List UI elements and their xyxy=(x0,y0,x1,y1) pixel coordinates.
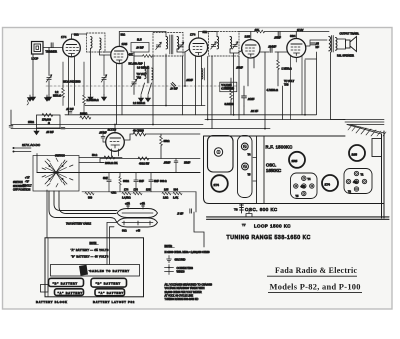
grid resistor 2.2MEG V2 xyxy=(83,95,86,105)
vertical drop x153 xyxy=(152,56,154,125)
svg-text:.01MF: .01MF xyxy=(186,79,193,82)
IF can square (top view) xyxy=(208,136,234,173)
cables row box xyxy=(51,265,140,277)
battery cable curves xyxy=(54,191,117,211)
svg-text:CABLES TO BATTERY: CABLES TO BATTERY xyxy=(90,269,130,273)
screen cap xyxy=(278,32,280,37)
variable capacitor C2 osc gang xyxy=(103,55,105,95)
svg-text:OUTPUT TRANS.: OUTPUT TRANS. xyxy=(340,33,360,36)
wire to output transformer xyxy=(306,40,328,46)
resistor 2000 1W xyxy=(104,156,115,159)
wire IFT2 to V4 xyxy=(230,49,243,53)
junction dots on rails xyxy=(152,124,154,126)
bus rail D xyxy=(11,124,203,126)
svg-text:.04 MF: .04 MF xyxy=(136,47,144,50)
svg-text:50 Ω: 50 Ω xyxy=(92,154,97,157)
svg-text:78.5 BATTERY CABLE: 78.5 BATTERY CABLE xyxy=(66,223,91,226)
cable connector blob xyxy=(79,265,88,276)
trimmer T7 mark xyxy=(246,211,252,217)
coupling cap .004MF xyxy=(270,48,272,53)
cap 8MF b xyxy=(149,180,153,182)
socket pins T1 xyxy=(354,171,358,175)
variable capacitor C1 xyxy=(46,75,52,82)
tube V1 1T4 RF amp xyxy=(63,39,81,115)
resistor 600 vertical xyxy=(119,177,121,185)
wire 3S4 filament right xyxy=(305,58,317,60)
cap .04MF mid xyxy=(171,82,176,87)
svg-text:.02 MF: .02 MF xyxy=(251,110,259,113)
IF can adjuster xyxy=(214,148,222,156)
svg-text:1R5: 1R5 xyxy=(122,42,128,46)
svg-text:1R5: 1R5 xyxy=(292,159,298,163)
svg-text:“B” BATTERY: “B” BATTERY xyxy=(53,281,78,285)
svg-text:BATTERY BLOCK: BATTERY BLOCK xyxy=(36,300,68,304)
svg-text:8MF: 8MF xyxy=(154,180,159,183)
svg-text:1T4: 1T4 xyxy=(190,33,196,37)
svg-text:45Ω: 45Ω xyxy=(353,181,358,184)
battery layout outer box xyxy=(45,238,144,297)
svg-text:1R5: 1R5 xyxy=(146,189,151,192)
cap .05 on filter xyxy=(174,161,178,162)
chassis front bar xyxy=(207,217,390,219)
chassis corner brace hatched xyxy=(343,120,386,137)
svg-text:4½VOLT: 4½VOLT xyxy=(22,184,32,188)
wire switch left down xyxy=(36,154,38,173)
svg-text:-“B”: -“B” xyxy=(25,181,29,184)
battery plug P1 xyxy=(117,209,158,218)
svg-text:3S4: 3S4 xyxy=(174,189,179,192)
RF coil secondary xyxy=(100,38,102,50)
vertical drop x233 xyxy=(233,53,235,115)
filament resistor b xyxy=(122,192,131,195)
volume control box xyxy=(220,82,237,92)
svg-text:+1½: +1½ xyxy=(125,202,130,206)
junction dot xyxy=(184,85,186,87)
wire coil to V2 grid xyxy=(100,51,112,56)
svg-text:.05MF: .05MF xyxy=(236,66,243,69)
svg-text:R.F. 1500KC: R.F. 1500KC xyxy=(266,144,293,149)
svg-text:900 Ω: 900 Ω xyxy=(160,180,167,183)
svg-text:“A” BATTERY: “A” BATTERY xyxy=(99,291,124,295)
wire osc coil down xyxy=(134,52,152,95)
svg-text:.05 MF: .05 MF xyxy=(46,131,54,134)
osc padder variable cap xyxy=(131,79,137,86)
svg-text:“A” BATTERY: “A” BATTERY xyxy=(58,291,83,295)
vertical drop x185 xyxy=(184,52,186,86)
filter rail xyxy=(100,158,200,160)
resistor 270,000 xyxy=(42,113,53,116)
svg-text:1650KC: 1650KC xyxy=(266,168,281,173)
svg-text:270,000: 270,000 xyxy=(42,119,51,122)
svg-text:90Ω: 90Ω xyxy=(122,230,127,233)
on-off switch S1 rotary xyxy=(33,156,79,192)
plate wire V3 to IFT2 xyxy=(198,32,217,39)
svg-text:2.2 MEG.Ω: 2.2 MEG.Ω xyxy=(87,99,99,102)
svg-text:47K: 47K xyxy=(129,54,134,57)
wire speaker to transformer xyxy=(337,39,346,49)
vertical drop x317 xyxy=(316,52,318,115)
filament resistor d xyxy=(162,192,171,195)
resistor 47K in rail xyxy=(255,30,265,33)
svg-text:GROUND: GROUND xyxy=(175,259,186,262)
squiggle mark xyxy=(27,100,29,106)
RF coil primary xyxy=(91,37,93,49)
tube V4 1S5 det-af xyxy=(242,40,260,86)
svg-text:.04 MF: .04 MF xyxy=(170,88,178,91)
resistor 400 5W xyxy=(138,157,149,160)
arrow to cables xyxy=(89,270,91,272)
bus rail E xyxy=(11,128,270,130)
svg-text:4.7MEG.Ω: 4.7MEG.Ω xyxy=(267,89,279,92)
grid wire V2 left xyxy=(103,51,111,53)
svg-text:40 OHMS: 40 OHMS xyxy=(133,130,144,133)
B+ top rail xyxy=(239,31,329,33)
wire A to battery box xyxy=(46,190,48,238)
svg-text:“B” BATTERY — 45 VOLTS: “B” BATTERY — 45 VOLTS xyxy=(71,255,109,258)
svg-text:2000.Ω 1W.: 2000.Ω 1W. xyxy=(105,162,118,165)
svg-text:67.5V: 67.5V xyxy=(297,29,304,32)
tube socket 1S5 (layout) xyxy=(349,145,365,161)
svg-text:P.M. SPEAKER: P.M. SPEAKER xyxy=(337,55,354,58)
wire IFT1 to V3 grid xyxy=(177,49,190,52)
IF can coil small xyxy=(202,68,205,80)
svg-text:3S4: 3S4 xyxy=(290,34,296,38)
bus rail A xyxy=(85,105,205,107)
svg-text:TAB: TAB xyxy=(137,77,142,80)
grounds above rail D xyxy=(27,95,32,101)
tube socket 1R5 (layout) xyxy=(289,152,305,168)
svg-text:.01MF: .01MF xyxy=(248,98,255,101)
svg-text:MF: MF xyxy=(316,46,320,49)
svg-text:TUNING RANGE 538-1650 KC: TUNING RANGE 538-1650 KC xyxy=(227,235,311,241)
svg-text:400Ω 5W: 400Ω 5W xyxy=(139,163,150,166)
svg-text:T7: T7 xyxy=(242,223,246,227)
B battery cell left xyxy=(49,278,84,286)
svg-text:1S5: 1S5 xyxy=(352,152,358,156)
wire plug to box xyxy=(107,223,110,265)
bus rail B xyxy=(65,114,316,116)
svg-text:LOOP: LOOP xyxy=(32,58,39,61)
tube socket 1T4 (layout) xyxy=(211,175,228,192)
svg-text:1.4V.: 1.4V. xyxy=(173,197,179,200)
svg-text:NO.250 AMP: NO.250 AMP xyxy=(129,63,144,66)
legend ground symbol xyxy=(167,256,172,263)
ground xyxy=(88,95,93,101)
notch rectangle on right edge xyxy=(372,139,382,157)
svg-text:2.2 MEG.Ω: 2.2 MEG.Ω xyxy=(133,102,145,105)
cap .05 upper xyxy=(68,112,72,113)
socket pins xyxy=(302,176,306,180)
small plug rect at left edge xyxy=(41,285,49,293)
resistor box 270,000 ohm xyxy=(37,115,61,128)
chassis right edge double line xyxy=(382,131,385,218)
svg-text:+“A”: +“A” xyxy=(25,177,30,180)
vertical drop x330 xyxy=(331,52,346,120)
vertical drop x166 xyxy=(165,54,167,106)
tube V3 1T4 IF amp xyxy=(189,38,207,115)
plate wire V5 up xyxy=(295,32,297,39)
svg-text:TRIMMER: TRIMMER xyxy=(46,51,58,54)
filament resistor c xyxy=(133,192,142,195)
wire V2 plate to IFT1 xyxy=(128,32,166,37)
vertical drop x244 xyxy=(243,106,245,115)
svg-text:300: 300 xyxy=(88,197,93,200)
plate wire V1 to RF coil xyxy=(72,34,87,39)
svg-text:VOLTAGE READINGS TAKEN WITH: VOLTAGE READINGS TAKEN WITH xyxy=(165,287,205,290)
wire left filter xyxy=(100,159,104,163)
svg-text:MICA PADDING: MICA PADDING xyxy=(63,81,81,84)
resistor volume vertical xyxy=(230,90,233,100)
svg-text:OSC. 600 KC: OSC. 600 KC xyxy=(245,207,278,212)
tube V5 3S4 output xyxy=(287,39,306,120)
tube socket 1T4 right (layout) xyxy=(322,175,338,191)
tuning cap C1 branch xyxy=(48,48,50,95)
output transformer T3 xyxy=(329,36,337,53)
IF transformer T2 dashed can xyxy=(209,32,240,57)
svg-text:TAB: TAB xyxy=(284,84,289,87)
vertical drop x207 xyxy=(207,57,209,120)
svg-text:1T4: 1T4 xyxy=(214,183,220,187)
svg-text:1S5: 1S5 xyxy=(245,35,251,39)
svg-text:OSC.: OSC. xyxy=(266,163,276,168)
IF transformer T1 dashed can xyxy=(153,33,183,57)
left edge cap C-line xyxy=(9,126,13,127)
B battery cell right xyxy=(91,278,127,287)
svg-text:.5 MF: .5 MF xyxy=(177,213,184,216)
choke 1000 xyxy=(80,116,91,119)
svg-text:25MF: 25MF xyxy=(184,162,191,165)
svg-text:600Ω: 600Ω xyxy=(123,180,129,183)
output socket square T1 T2 xyxy=(344,169,372,194)
plate wire V4 up to B+ rail xyxy=(250,32,252,40)
inner left edge line xyxy=(47,238,49,297)
vertical drop x265 xyxy=(264,52,266,129)
svg-text:AT VOLT. 60 CYCLE LINE: AT VOLT. 60 CYCLE LINE xyxy=(165,294,194,297)
svg-text:ALL VOLTAGES MEASURED TO CHASS: ALL VOLTAGES MEASURED TO CHASSIS xyxy=(165,284,213,287)
A battery cell left xyxy=(55,289,84,296)
svg-text:3.9 MEG.Ω: 3.9 MEG.Ω xyxy=(137,67,149,70)
power plug wires xyxy=(13,148,31,152)
svg-text:MEG.Ω: MEG.Ω xyxy=(53,95,61,98)
svg-text:+45: +45 xyxy=(136,230,141,233)
svg-text:1S5: 1S5 xyxy=(164,189,169,192)
plate wire 117Z3 xyxy=(114,125,116,133)
plug 2 marks xyxy=(124,221,150,225)
svg-text:OFF POSITION: OFF POSITION xyxy=(13,189,30,192)
speaker SP1 xyxy=(346,37,357,52)
svg-text:4.5Ω: 4.5Ω xyxy=(111,192,116,195)
svg-text:8MF: 8MF xyxy=(103,177,108,180)
filament string wire xyxy=(82,191,196,193)
vertical drop x282 xyxy=(282,86,284,120)
bus rail C xyxy=(205,119,345,121)
B minus rail thick xyxy=(37,172,200,174)
trimmer T5 xyxy=(242,163,249,170)
svg-text:K=1000 OHMS. MEG.= 1,000,00: K=1000 OHMS. MEG.= 1,000,000 OHMS xyxy=(165,251,210,254)
wire V4 to output grid xyxy=(260,51,288,53)
tube V6 117Z3 rectifier xyxy=(106,133,125,156)
svg-text:1T4: 1T4 xyxy=(325,182,331,186)
cap .05 xyxy=(61,128,65,129)
trimmer T4 xyxy=(241,143,248,150)
svg-text:WIRES: WIRES xyxy=(177,271,185,274)
svg-text:CONNECTING: CONNECTING xyxy=(177,267,193,270)
svg-text:.004MF: .004MF xyxy=(268,46,277,49)
vertical drop x305 xyxy=(304,60,306,115)
svg-text:32Ω: 32Ω xyxy=(121,34,126,37)
chassis outline xyxy=(204,136,384,204)
wire down right xyxy=(194,212,204,247)
svg-text:Models P-82, and P-100: Models P-82, and P-100 xyxy=(270,283,361,292)
svg-text:“B” BATTERY: “B” BATTERY xyxy=(96,282,121,286)
dashed gang line xyxy=(46,85,238,87)
svg-text:1000Ω: 1000Ω xyxy=(80,113,87,116)
svg-text:1T4: 1T4 xyxy=(134,189,139,192)
resistor 40 ohms xyxy=(133,132,146,136)
svg-text:.05MF: .05MF xyxy=(274,37,281,40)
cap .01 xyxy=(242,96,247,98)
plug pin marks xyxy=(126,205,144,209)
filament resistor a xyxy=(85,192,94,195)
cap .05MF at output xyxy=(311,43,316,45)
ground xyxy=(46,95,51,101)
A battery cell right xyxy=(95,289,125,296)
svg-text:CONTROL: CONTROL xyxy=(221,88,234,91)
svg-text:BATTERY LAYOUT P82: BATTERY LAYOUT P82 xyxy=(93,300,135,304)
wire left edge vertical xyxy=(10,110,12,125)
cap .5MF xyxy=(190,209,192,213)
svg-text:“A” BATTERY — 4½ VOLTS: “A” BATTERY — 4½ VOLTS xyxy=(71,248,109,252)
ground xyxy=(138,96,143,102)
svg-text:250Ω: 250Ω xyxy=(28,121,34,124)
wire filament to .5MF xyxy=(195,192,197,212)
resistor 350 vertical xyxy=(160,136,163,146)
wire coil bottom down xyxy=(90,49,92,95)
svg-text:20,000 OHMS PER VOLT METER: 20,000 OHMS PER VOLT METER xyxy=(165,291,202,294)
trimmer strip xyxy=(238,136,253,198)
grid resistor 2.2MEG V1 xyxy=(62,88,65,98)
resistor 1meg vertical xyxy=(277,60,280,70)
wire loop left down to ground xyxy=(32,54,34,95)
ground xyxy=(145,96,150,102)
vertical drop x212 xyxy=(211,56,213,129)
ground xyxy=(101,95,106,101)
trimmer T6 mark xyxy=(240,204,244,214)
battery plug P2 xyxy=(117,218,158,227)
svg-text:2.9Ω: 2.9Ω xyxy=(163,197,168,200)
oscillator coil T-OSC xyxy=(145,66,154,83)
vertical drop x239 xyxy=(238,56,240,120)
box .04MF section xyxy=(131,43,149,53)
svg-text:3MF: 3MF xyxy=(139,180,144,183)
svg-text:350Ω: 350Ω xyxy=(164,140,170,143)
trimmer cap on loop wire xyxy=(51,43,53,48)
vertical drop x182 xyxy=(182,56,184,115)
svg-text:Ω: Ω xyxy=(48,122,50,125)
vertical drop x231 xyxy=(230,106,232,115)
svg-text:1.4,50Ω: 1.4,50Ω xyxy=(122,197,131,200)
plug dots xyxy=(13,147,15,149)
svg-text:1T4: 1T4 xyxy=(61,35,67,39)
ground xyxy=(30,95,35,101)
svg-text:Fada Radio & Electric: Fada Radio & Electric xyxy=(275,266,358,275)
svg-text:.05 MF: .05 MF xyxy=(66,108,74,111)
tube V2 1R5 converter xyxy=(111,46,128,124)
svg-text:+4½: +4½ xyxy=(140,202,145,206)
svg-text:117V. AC-DC: 117V. AC-DC xyxy=(22,143,41,147)
svg-text:T6: T6 xyxy=(234,208,238,212)
filament resistor e xyxy=(173,192,182,195)
svg-text:11.5: 11.5 xyxy=(137,39,142,42)
loop antenna L1 xyxy=(32,42,44,55)
svg-text:45Ω: 45Ω xyxy=(301,186,306,189)
svg-text:LOOP 1500 KC: LOOP 1500 KC xyxy=(254,224,291,229)
wire loop to V1 grid xyxy=(43,47,63,49)
dial channel vertical lines xyxy=(257,136,265,204)
plate wire V2 up xyxy=(119,32,128,47)
svg-text:TUNING RANGE 538-1650 KC: TUNING RANGE 538-1650 KC xyxy=(165,298,199,301)
ground xyxy=(44,95,49,101)
osc coil socket square xyxy=(291,173,318,199)
cap 8MF xyxy=(107,180,111,182)
wire rectifier cathode right xyxy=(124,134,200,140)
osc grid resistor xyxy=(143,55,153,58)
RF transformer dashed can xyxy=(87,33,106,52)
cap 3MF xyxy=(134,180,138,182)
wire switch to rectifier xyxy=(79,158,122,163)
svg-text:.05MF: .05MF xyxy=(164,162,171,165)
ground at box xyxy=(34,129,39,135)
svg-text:1T4: 1T4 xyxy=(124,189,129,192)
legend connecting wires symbol xyxy=(165,265,174,275)
svg-text:3.3MEG: 3.3MEG xyxy=(225,103,234,106)
svg-text:SWITCH: SWITCH xyxy=(55,155,65,158)
